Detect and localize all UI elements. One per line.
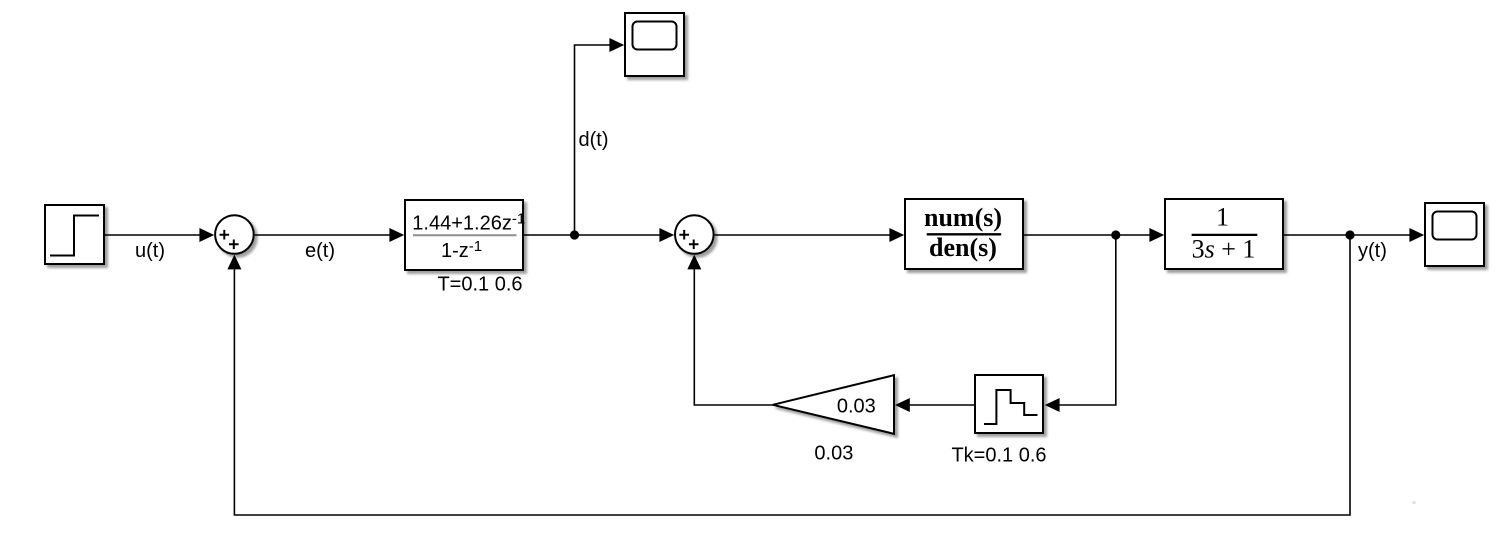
svg-text:y(t): y(t): [1358, 240, 1387, 262]
scope block (right): [1425, 203, 1484, 266]
svg-text:e(t): e(t): [305, 240, 335, 262]
wire TF3 to scope2 with arrowhead: [1283, 228, 1424, 242]
branch node to sampler: [1111, 230, 1120, 239]
svg-text:0.03: 0.03: [814, 442, 853, 464]
wire ZOH to gain with arrowhead: [895, 398, 975, 412]
summing junction S2: [675, 215, 714, 254]
wire branch to zero-order hold with arrowhead: [1045, 235, 1116, 412]
step source block: [45, 205, 104, 264]
label d(t): [579, 129, 609, 151]
transfer function block num(s)/den(s): [905, 199, 1023, 269]
branch node y(t): [1345, 230, 1354, 239]
wire sum2 to TF2 with arrowhead: [715, 228, 905, 242]
discrete transfer function block (1.44+1.26z^-1)/(1-z^-1): [405, 200, 525, 270]
label y(t): [1358, 240, 1387, 262]
svg-text:Tk=0.1 0.6: Tk=0.1 0.6: [951, 444, 1046, 466]
wire TF1 to sum2 with arrowhead: [523, 228, 674, 242]
svg-text:3s + 1: 3s + 1: [1192, 235, 1256, 264]
wire step to sum1 with arrowhead: [105, 228, 214, 242]
branch node d(t): [570, 230, 579, 239]
svg-text:0.03: 0.03: [837, 395, 876, 417]
label e(t): [305, 240, 335, 262]
svg-text:1.44+1.26z-1: 1.44+1.26z-1: [412, 211, 525, 235]
label 0.03: [814, 442, 853, 464]
wire outer feedback loop y(t) to sum1 with arrowhead: [227, 235, 1350, 515]
svg-text:den(s): den(s): [929, 233, 997, 262]
gain block 0.03 (triangle): [773, 375, 894, 434]
svg-text:num(s): num(s): [924, 203, 1002, 232]
wire branch up to scope1 with arrowhead: [575, 38, 625, 235]
wire TF2 to TF3 with arrowhead: [1023, 228, 1164, 242]
summing junction S1: [215, 215, 254, 254]
scope block (top): [625, 13, 684, 76]
label T=0.1 0.6: [437, 274, 522, 296]
grid dot artifact: [1412, 501, 1415, 504]
transfer function block 1/(3s+1): [1165, 199, 1283, 269]
label Tk=0.1 0.6: [951, 444, 1046, 466]
label u(t): [135, 240, 165, 262]
svg-text:T=0.1 0.6: T=0.1 0.6: [437, 274, 522, 296]
svg-text:1: 1: [1216, 203, 1229, 232]
wire sum1 to discrete TF with arrowhead: [255, 228, 405, 242]
svg-text:u(t): u(t): [135, 240, 165, 262]
wire gain to sum2 with arrowhead: [687, 255, 773, 405]
svg-text:d(t): d(t): [579, 129, 609, 151]
zero-order hold block: [975, 375, 1043, 433]
